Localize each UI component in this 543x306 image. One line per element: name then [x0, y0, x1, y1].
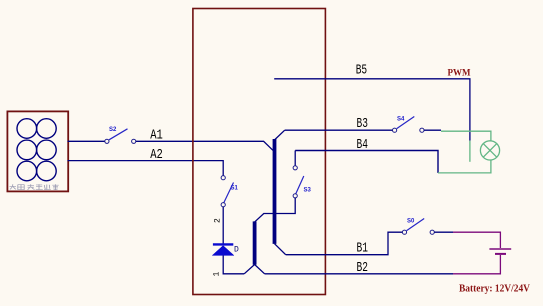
bus1 top fork to B3 [275, 130, 285, 139]
solar cell circle 5 [17, 161, 37, 181]
wire diode anode [223, 255, 244, 273]
bus1 main vertical [273, 139, 277, 244]
switch S1 lever [224, 183, 234, 203]
wire B2 [265, 273, 453, 275]
switch S3 lever [296, 176, 304, 194]
switch S2 contact a [105, 139, 109, 143]
switch S4 contact a [393, 128, 397, 132]
svg-text:S0: S0 [407, 219, 415, 225]
wire B4 riser to switch S3 [294, 151, 296, 166]
svg-text:S1: S1 [231, 186, 239, 192]
lamp frame bottom [438, 160, 491, 173]
switch S4 contact b [420, 128, 424, 132]
lamp circle [480, 141, 499, 160]
svg-text:PWM: PWM [448, 68, 471, 78]
switch S0 contact a [402, 230, 406, 234]
wire A2 [68, 161, 224, 176]
diode D triangle [212, 246, 234, 256]
battery positive lead [453, 232, 500, 248]
svg-text:B5: B5 [356, 62, 367, 78]
switch S2 lever [109, 129, 128, 140]
wire B3 to lamp [424, 129, 441, 131]
battery negative lead [453, 255, 500, 274]
battery long plate [489, 248, 511, 250]
switch S3 contact b [293, 194, 297, 198]
wire B1 [286, 232, 403, 255]
switch S1 contact b [221, 203, 225, 207]
solar cell circle 2 [37, 119, 57, 139]
wire B4 [295, 151, 438, 173]
diode D cathode bar [213, 243, 233, 245]
solar panel label (CJK) [10, 184, 59, 189]
lamp cross stroke 2 [483, 144, 497, 158]
wire B1 to battery [434, 231, 453, 233]
svg-text:1: 1 [213, 272, 222, 277]
wire B3 [285, 129, 393, 131]
switch S0 contact b [430, 230, 434, 234]
solar cell circle 4 [37, 140, 57, 160]
wire switch S1 to diode [222, 207, 224, 244]
controller box [193, 9, 326, 295]
bus2 fork to B2 [255, 265, 265, 274]
wire B5 stub [274, 79, 470, 141]
switch S4 lever [397, 117, 415, 129]
switch S3 contact a [293, 166, 297, 170]
bus2 lower vertical [253, 221, 257, 264]
switch S1 contact a [221, 176, 225, 180]
svg-text:S2: S2 [109, 127, 117, 133]
wire A1 [136, 141, 273, 150]
svg-text:B1: B1 [357, 240, 368, 256]
svg-text:2: 2 [214, 218, 223, 223]
solar cell circle 1 [17, 119, 37, 139]
switch S2 contact b [132, 139, 136, 143]
lamp cross stroke 1 [483, 144, 497, 158]
svg-text:Battery: 12V/24V: Battery: 12V/24V [459, 283, 531, 295]
solar cell circle 6 [37, 161, 57, 181]
solar cell circle 3 [17, 140, 37, 160]
wire switch S3 to bus2 [255, 198, 295, 222]
svg-text:D: D [234, 246, 239, 255]
svg-text:S3: S3 [304, 188, 312, 194]
wire solar+ to switch S2 [68, 140, 105, 142]
switch S0 lever [407, 219, 425, 231]
bus1 bottom fork to B1 [275, 244, 286, 255]
lamp L green frame top [441, 131, 491, 141]
svg-text:B3: B3 [357, 115, 368, 131]
battery short plate [495, 253, 506, 255]
svg-text:S4: S4 [397, 117, 405, 123]
lamp middle pin stub [469, 141, 471, 162]
solar panel module box [7, 111, 68, 191]
bus2 fork to diode [244, 265, 254, 274]
